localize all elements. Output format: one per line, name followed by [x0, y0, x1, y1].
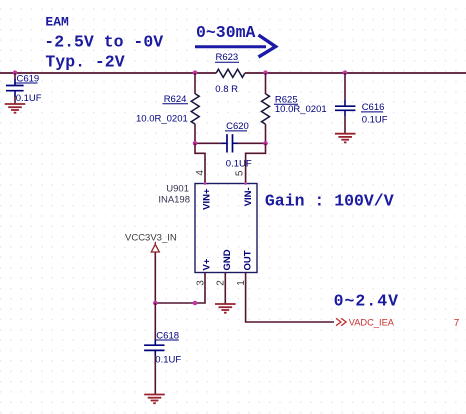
resistor R623 — [195, 52, 266, 95]
wire top net right segment — [266, 72, 466, 74]
junction at C619 tap — [13, 70, 18, 75]
power symbol VCC3V3_IN — [125, 232, 177, 303]
svg-text:U901: U901 — [166, 183, 189, 194]
wire jog to pin 4 — [195, 143, 205, 184]
svg-text:OUT: OUT — [243, 250, 254, 270]
ground for pin 2 — [215, 304, 236, 313]
resistor R624 — [136, 73, 199, 143]
junction C620 left — [193, 141, 198, 146]
svg-text:VIN-: VIN- — [243, 187, 254, 206]
svg-text:VADC_IEA: VADC_IEA — [349, 318, 395, 328]
capacitor C616 — [335, 73, 388, 133]
junction R623 left — [193, 70, 198, 75]
svg-text:R623: R623 — [216, 52, 239, 63]
svg-text:0~30mA: 0~30mA — [196, 23, 256, 42]
junction C616 tap — [343, 70, 348, 75]
svg-text:VIN+: VIN+ — [202, 188, 213, 210]
svg-text:EAM: EAM — [45, 14, 69, 29]
junction VCC tap — [153, 301, 158, 306]
svg-text:0.1UF: 0.1UF — [155, 355, 181, 366]
ground for C618 — [144, 395, 165, 404]
op-amp U901 INA198 — [158, 182, 257, 272]
svg-text:0.1UF: 0.1UF — [226, 159, 252, 170]
svg-text:2: 2 — [216, 280, 227, 286]
wire pin 1 OUT — [246, 273, 334, 323]
junction R623 right — [263, 70, 268, 75]
svg-text:0~2.4V: 0~2.4V — [334, 291, 399, 310]
svg-text:5: 5 — [235, 170, 246, 176]
wire pin 3 to VCC rail — [155, 273, 205, 304]
resistor R625 — [262, 73, 327, 143]
svg-text:10.0R_0201: 10.0R_0201 — [275, 104, 327, 115]
off-page connector VADC_IEA — [336, 318, 395, 328]
svg-text:7: 7 — [454, 318, 460, 329]
capacitor C618 — [144, 303, 181, 394]
junction pin3 rail — [193, 301, 198, 306]
svg-text:0.1UF: 0.1UF — [362, 115, 388, 126]
wire pin 2 to ground — [224, 273, 226, 304]
svg-text:3: 3 — [196, 280, 207, 286]
svg-text:0.1UF: 0.1UF — [16, 93, 42, 104]
ground for C616 — [335, 134, 356, 143]
svg-text:VCC3V3_IN: VCC3V3_IN — [125, 232, 177, 243]
wire jog to pin 5 — [246, 143, 266, 184]
ground for C619 — [5, 104, 26, 113]
current arrow — [195, 35, 276, 57]
svg-text:4: 4 — [195, 170, 206, 176]
svg-text:GND: GND — [222, 249, 233, 270]
svg-text:-2.5V to -0V: -2.5V to -0V — [44, 32, 163, 51]
svg-text:Gain : 100V/V: Gain : 100V/V — [265, 191, 394, 210]
svg-text:Typ. -2V: Typ. -2V — [45, 53, 124, 72]
svg-text:V+: V+ — [202, 258, 213, 270]
svg-text:10.0R_0201: 10.0R_0201 — [136, 114, 188, 125]
wire top net left segment — [0, 72, 195, 74]
junction C620 right — [263, 141, 268, 146]
svg-text:0.8 R: 0.8 R — [215, 84, 238, 95]
capacitor C620 — [195, 121, 266, 170]
capacitor C619 — [6, 73, 42, 104]
svg-text:INA198: INA198 — [158, 194, 190, 205]
